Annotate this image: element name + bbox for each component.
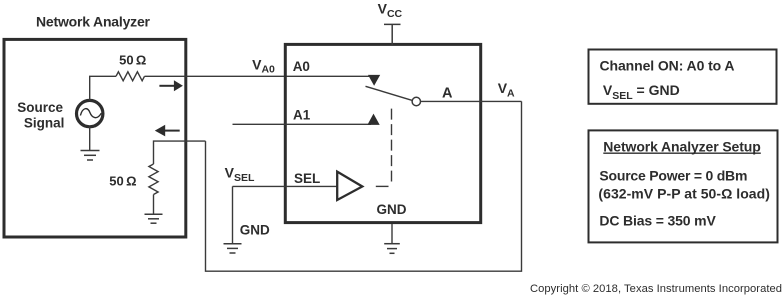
switch input triangle A0 — [368, 75, 380, 86]
svg-text:(632-mV P-P at 50-Ω load): (632-mV P-P at 50-Ω load) — [598, 185, 770, 201]
wire: SEL net — [233, 185, 338, 187]
ground (mux) — [384, 244, 400, 254]
resistor R1 50 ohm (series) — [116, 72, 145, 81]
dashed control line (horizontal from buffer) — [376, 185, 389, 187]
ground (source) — [81, 151, 100, 161]
buffer (SEL driver) — [337, 172, 362, 200]
ground (termination) — [145, 214, 163, 223]
svg-text:Source: Source — [17, 100, 63, 115]
wire: VSEL to ground — [232, 186, 234, 243]
wire: A1 net — [233, 123, 372, 125]
Network Analyzer box — [4, 39, 186, 237]
svg-text:Network Analyzer: Network Analyzer — [36, 14, 151, 30]
svg-text:A1: A1 — [293, 107, 311, 122]
switch arm — [366, 86, 413, 100]
dashed control line (vertical) — [391, 109, 393, 182]
svg-text:50Ω: 50Ω — [119, 53, 146, 68]
svg-text:50Ω: 50Ω — [109, 174, 136, 189]
resistor R2 50 ohm (termination, vertical) — [149, 164, 158, 195]
wire: source top to resistor — [90, 76, 116, 100]
annotation box: channel on — [589, 50, 777, 104]
switch pole circle — [412, 97, 420, 105]
ground (VSEL) — [224, 244, 242, 253]
svg-text:Copyright © 2018, Texas Instru: Copyright © 2018, Texas Instruments Inco… — [530, 283, 782, 295]
svg-text:Source Power = 0 dBm: Source Power = 0 dBm — [599, 168, 747, 184]
AC source V1 — [77, 100, 103, 126]
svg-text:A: A — [442, 85, 453, 101]
wire: resistor to ground — [153, 195, 155, 214]
wire: A0 net (VA0) — [145, 75, 370, 77]
switch input triangle A1 — [367, 114, 379, 125]
wire: return path down / bottom / up to VA — [206, 101, 522, 271]
svg-text:Network Analyzer Setup: Network Analyzer Setup — [603, 139, 761, 155]
arrow: forward signal direction — [159, 80, 183, 91]
svg-text:Signal: Signal — [24, 115, 65, 130]
svg-text:GND: GND — [377, 202, 407, 217]
svg-text:SEL: SEL — [294, 171, 320, 186]
svg-text:DC Bias = 350 mV: DC Bias = 350 mV — [599, 213, 716, 229]
wire: return net top — [154, 141, 206, 164]
wire: A output net — [421, 100, 522, 102]
arrow: return signal direction — [155, 125, 180, 137]
svg-text:A0: A0 — [293, 59, 310, 74]
mux box U1 — [285, 44, 480, 222]
svg-text:GND: GND — [240, 222, 270, 237]
wire: mux ground — [391, 224, 393, 244]
wire: source bottom to ground — [89, 127, 91, 151]
VCC power symbol — [384, 24, 401, 45]
svg-text:Channel ON: A0 to A: Channel ON: A0 to A — [600, 58, 735, 74]
annotation box: network analyzer setup — [589, 130, 778, 242]
